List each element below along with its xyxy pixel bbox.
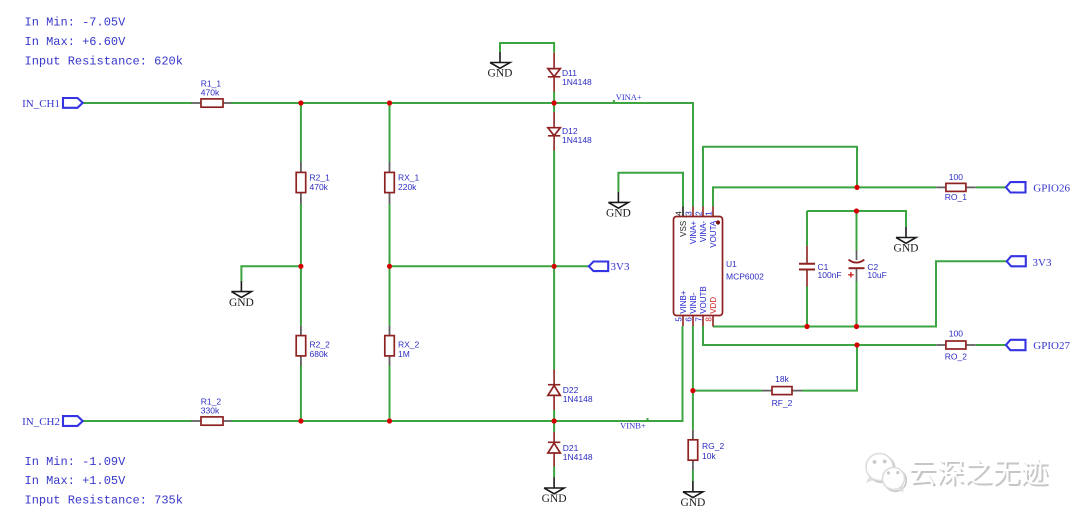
resistor RX_2 bbox=[385, 326, 420, 366]
ground GND2 left (R2 midpoint) bbox=[229, 281, 254, 309]
svg-text:3: 3 bbox=[685, 211, 694, 216]
diode D11 bbox=[548, 53, 592, 92]
svg-text:470k: 470k bbox=[201, 88, 220, 98]
svg-text:1M: 1M bbox=[398, 349, 410, 359]
svg-text:1: 1 bbox=[705, 211, 714, 216]
svg-text:RO_2: RO_2 bbox=[945, 351, 967, 361]
resistor R1_1 bbox=[192, 78, 232, 107]
port IN_CH1 bbox=[22, 98, 83, 110]
wire op-amp pin 4 VSS bracket to GND bbox=[618, 173, 683, 207]
wire RF_2 to VOUTB row bbox=[802, 345, 857, 391]
svg-text:GND: GND bbox=[488, 68, 513, 80]
resistor R2_1 bbox=[296, 162, 330, 205]
svg-text:IN_CH1: IN_CH1 bbox=[22, 98, 60, 110]
svg-text:RF_2: RF_2 bbox=[772, 398, 793, 408]
svg-text:In Max: +1.05V: In Max: +1.05V bbox=[25, 474, 127, 488]
svg-text:U1: U1 bbox=[726, 259, 737, 269]
svg-text:3V3: 3V3 bbox=[611, 261, 630, 273]
wire op-amp pin 6 to RG_2 bbox=[692, 326, 694, 430]
svg-text:VINA-: VINA- bbox=[699, 220, 708, 242]
svg-text:100: 100 bbox=[949, 329, 963, 339]
wire D11 top bracket to GND bbox=[500, 43, 554, 53]
svg-text:VINA+: VINA+ bbox=[689, 220, 698, 244]
wire D22 anode to D21 cathode bbox=[553, 410, 555, 432]
wire decoupling top rail to GND bbox=[807, 211, 906, 227]
svg-text:In Max: +6.60V: In Max: +6.60V bbox=[25, 35, 127, 49]
svg-text:4: 4 bbox=[675, 211, 684, 216]
svg-text:IN_CH2: IN_CH2 bbox=[22, 416, 60, 428]
wire R1_1 to op-amp pin 3 (VINA+ net) bbox=[231, 103, 693, 207]
svg-text:MCP6002: MCP6002 bbox=[726, 272, 764, 282]
svg-text:RO_1: RO_1 bbox=[945, 192, 967, 202]
svg-text:GND: GND bbox=[542, 493, 567, 505]
wire RO_1 to GPIO26 bbox=[976, 186, 1006, 188]
svg-text:220k: 220k bbox=[398, 182, 417, 192]
svg-text:1N4148: 1N4148 bbox=[563, 452, 593, 462]
wire D21 anode to GND bbox=[553, 467, 555, 478]
watermark wechat logo bbox=[866, 454, 906, 494]
annotation channel 1 bbox=[25, 15, 183, 68]
svg-text:470k: 470k bbox=[310, 182, 329, 192]
resistor R2_2 bbox=[296, 326, 330, 366]
wire R2_2 bottom bbox=[300, 366, 302, 421]
wire C1 top bbox=[806, 211, 808, 246]
wire VDD rail pin 8 to 3V3 bbox=[713, 261, 1007, 326]
diode D22 bbox=[548, 370, 593, 411]
svg-text:Input Resistance: 735k: Input Resistance: 735k bbox=[25, 494, 183, 508]
wire R2_1 top bbox=[300, 103, 302, 162]
ground GND5 (D21) bbox=[542, 477, 567, 505]
ground GND4 (decoupling rail) bbox=[894, 227, 919, 255]
svg-text:2: 2 bbox=[695, 211, 704, 216]
svg-text:云深之无迹: 云深之无迹 bbox=[908, 457, 1048, 488]
svg-text:100: 100 bbox=[949, 172, 963, 182]
svg-text:GPIO26: GPIO26 bbox=[1033, 182, 1070, 194]
wire RX_1 bottom to RX_2 top bbox=[389, 204, 391, 326]
svg-text:10uF: 10uF bbox=[867, 270, 886, 280]
svg-text:VINB-: VINB- bbox=[689, 292, 698, 314]
svg-text:1N4148: 1N4148 bbox=[563, 394, 593, 404]
svg-text:In Min: -7.05V: In Min: -7.05V bbox=[25, 15, 127, 29]
resistor RG_2 bbox=[688, 430, 724, 470]
svg-text:Input Resistance: 620k: Input Resistance: 620k bbox=[25, 54, 183, 68]
node VINA+ label tick bbox=[613, 100, 615, 103]
svg-text:VINA+: VINA+ bbox=[616, 92, 642, 102]
resistor RO_2 bbox=[936, 329, 976, 362]
svg-text:RG_2: RG_2 bbox=[702, 441, 724, 451]
wire RG_2 to GND bbox=[692, 470, 694, 481]
capacitor C2 (polarized) bbox=[848, 250, 887, 281]
svg-text:7: 7 bbox=[695, 317, 704, 322]
svg-text:100nF: 100nF bbox=[818, 270, 842, 280]
port IN_CH2 bbox=[22, 416, 83, 428]
wire RX_1 top bbox=[389, 103, 391, 162]
wire RX_2 bottom bbox=[389, 366, 391, 421]
wire C1 bottom bbox=[806, 287, 808, 327]
svg-text:1N4148: 1N4148 bbox=[562, 135, 592, 145]
wire 3V3 rail bbox=[390, 265, 590, 267]
wire IN_CH2 to R1_2 bbox=[83, 420, 192, 422]
watermark text bbox=[908, 457, 1050, 490]
wire D11 cathode to D12 anode bbox=[553, 92, 555, 113]
resistor RF_2 bbox=[762, 374, 802, 408]
svg-text:GND: GND bbox=[606, 208, 631, 220]
svg-text:VSS: VSS bbox=[679, 221, 688, 237]
svg-text:VDD: VDD bbox=[709, 297, 718, 314]
wire VINB- junction to RF_2 bbox=[693, 390, 762, 392]
svg-text:3V3: 3V3 bbox=[1033, 257, 1052, 269]
svg-text:10k: 10k bbox=[702, 451, 716, 461]
wire C2 bottom bbox=[856, 281, 858, 327]
svg-text:GND: GND bbox=[894, 243, 919, 255]
svg-text:330k: 330k bbox=[201, 406, 220, 416]
ground GND6 (RG_2) bbox=[680, 481, 705, 509]
op-amp U1 pin numbers top 4 3 2 1 bbox=[675, 211, 714, 216]
op-amp U1 pin numbers bottom 5 6 7 8 bbox=[675, 317, 714, 322]
node VINB+ label tick bbox=[647, 418, 649, 421]
svg-text:VOUTA: VOUTA bbox=[709, 220, 718, 248]
svg-text:6: 6 bbox=[685, 317, 694, 322]
op-amp U1 MCP6002 bbox=[674, 207, 765, 327]
resistor RO_1 bbox=[936, 172, 976, 202]
wire IN_CH1 to R1_1 bbox=[83, 102, 192, 104]
svg-text:VOUTB: VOUTB bbox=[699, 286, 708, 314]
op-amp U1 pin names bottom bbox=[679, 286, 718, 314]
port 3V3 left bbox=[589, 261, 630, 273]
resistor R1_2 bbox=[192, 396, 232, 425]
wire R1_2 to op-amp pin 5 (VINB+ net) bbox=[231, 326, 683, 421]
port 3V3 right bbox=[1007, 256, 1052, 269]
wire op-amp pin 1 VOUTA row bbox=[713, 187, 936, 206]
svg-text:GND: GND bbox=[229, 297, 254, 309]
wire C2 top bbox=[856, 211, 858, 250]
capacitor C1 bbox=[799, 246, 842, 287]
svg-text:18k: 18k bbox=[775, 374, 789, 384]
resistor RX_1 bbox=[385, 162, 420, 205]
wire R2_1 bottom to R2_2 top bbox=[300, 204, 302, 326]
ground GND3 (op-amp VSS) bbox=[606, 192, 631, 220]
diode D12 bbox=[548, 112, 592, 151]
svg-text:VINB+: VINB+ bbox=[620, 420, 646, 430]
svg-text:In Min: -1.09V: In Min: -1.09V bbox=[25, 455, 127, 469]
svg-text:8: 8 bbox=[705, 317, 714, 322]
diode D21 bbox=[548, 432, 593, 467]
svg-text:VINB+: VINB+ bbox=[679, 290, 688, 314]
svg-text:GPIO27: GPIO27 bbox=[1033, 340, 1070, 352]
op-amp U1 pin names top bbox=[679, 220, 718, 248]
wire D12 cathode to D22 cathode bbox=[553, 151, 555, 370]
annotation channel 2 bbox=[25, 455, 183, 508]
ground GND1 top (D11) bbox=[488, 52, 513, 80]
wire GND bracket at R2 midpoint bbox=[241, 266, 301, 281]
svg-text:GND: GND bbox=[680, 497, 705, 509]
wire RO_2 to GPIO27 bbox=[976, 344, 1006, 346]
svg-text:1N4148: 1N4148 bbox=[562, 77, 592, 87]
svg-text:680k: 680k bbox=[310, 349, 329, 359]
port GPIO26 bbox=[1006, 182, 1071, 194]
port GPIO27 bbox=[1006, 340, 1071, 352]
wire op-amp pin 7 VOUTB row bbox=[703, 326, 936, 345]
wire op-amp pin 2 feedback bracket bbox=[703, 147, 857, 207]
svg-text:5: 5 bbox=[675, 317, 684, 322]
